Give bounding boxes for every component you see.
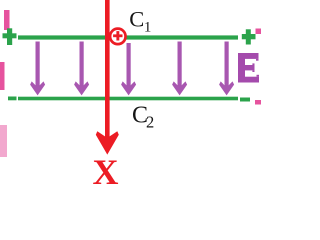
top plate (capacitor plate, green) (18, 35, 238, 39)
plus sign left (3, 28, 17, 45)
positive charge symbol (circled plus on top plate) (110, 29, 126, 45)
x axis line (red) (105, 0, 110, 140)
field arrow 4 (172, 42, 187, 96)
pink remnant left-middle (0, 62, 5, 90)
svg-text:C: C (129, 7, 144, 32)
pink remnant top-left (4, 10, 10, 30)
field arrow 5 (219, 42, 234, 96)
bottom plate (capacitor plate, green) (18, 97, 238, 101)
E label (field) (238, 53, 259, 83)
svg-text:X: X (93, 152, 119, 184)
svg-text:2: 2 (146, 113, 154, 132)
pink remnant right-top (256, 29, 262, 35)
pink remnant right-bottom (255, 100, 261, 105)
minus sign right (240, 98, 250, 102)
plus sign right (242, 29, 256, 44)
pink remnant bottom-left (0, 125, 7, 157)
svg-text:1: 1 (144, 19, 152, 35)
field arrow 2 (74, 42, 89, 96)
minus sign left (8, 97, 17, 101)
field arrow 3 (121, 43, 136, 95)
x axis arrowhead (96, 131, 119, 154)
field arrow 1 (30, 42, 45, 96)
